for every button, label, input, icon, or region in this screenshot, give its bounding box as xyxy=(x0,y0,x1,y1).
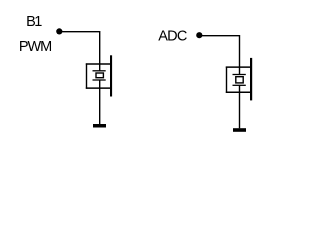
svg-text:B1: B1 xyxy=(26,14,42,30)
svg-text:PWM: PWM xyxy=(19,39,51,55)
svg-text:ADC: ADC xyxy=(158,29,187,45)
